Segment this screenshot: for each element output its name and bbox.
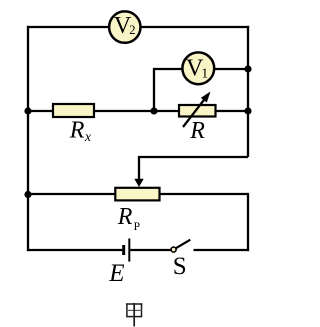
rheostat R arrow xyxy=(183,97,207,127)
switch S pivot xyxy=(171,247,176,252)
svg-text:R: R xyxy=(69,118,85,144)
potentiometer RP xyxy=(115,188,159,201)
wire V1 left horizontal xyxy=(154,68,183,70)
wire battery to switch xyxy=(130,249,171,251)
label RP xyxy=(117,204,140,233)
switch S lever xyxy=(176,240,190,249)
wire V1 right horizontal xyxy=(213,68,248,70)
wire right rail upper xyxy=(247,26,249,157)
wire top rail xyxy=(27,26,249,28)
node junction dot V1 drop on middle row xyxy=(150,107,157,114)
node junction dot V1 right rail xyxy=(244,65,251,72)
label Rx xyxy=(69,118,91,145)
svg-text:1: 1 xyxy=(201,66,208,81)
wire right rail lower xyxy=(247,193,249,251)
wire slider feed xyxy=(139,157,248,181)
voltmeter V2 xyxy=(109,11,140,42)
rheostat R (variable resistor) xyxy=(179,105,216,117)
slider arrowhead onto RP xyxy=(134,179,143,187)
caption glyph jia (drawn strokes) xyxy=(126,303,142,326)
battery E short plate xyxy=(122,245,125,255)
wire bottom left (to battery) xyxy=(27,249,123,251)
wire RP row xyxy=(28,193,248,195)
node junction dot left-RP xyxy=(24,191,31,198)
svg-text:2: 2 xyxy=(129,23,135,37)
wire middle row (Rx and R branch) xyxy=(28,110,248,112)
svg-text:R: R xyxy=(189,118,205,144)
voltmeter V1 xyxy=(182,52,214,84)
battery E long plate xyxy=(128,239,130,262)
svg-text:E: E xyxy=(108,260,124,287)
svg-text:P: P xyxy=(134,221,140,233)
node junction dot right rail middle row xyxy=(244,107,251,114)
svg-text:R: R xyxy=(117,204,133,230)
wire switch to bottom right corner xyxy=(194,249,250,251)
svg-text:x: x xyxy=(84,129,91,144)
svg-text:S: S xyxy=(173,253,187,280)
resistor Rx xyxy=(53,104,94,117)
wire V1 left drop xyxy=(153,68,155,111)
wire left rail xyxy=(27,26,29,251)
node junction dot left-Rx xyxy=(24,107,31,114)
